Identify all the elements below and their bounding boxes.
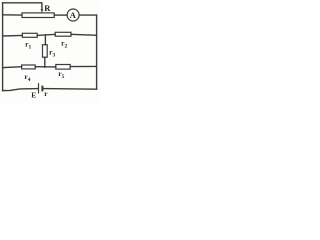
resistor r1 box xyxy=(22,33,37,37)
wire top slider lead xyxy=(3,3,42,10)
wire right rail xyxy=(96,15,98,89)
svg-text:E: E xyxy=(31,90,36,99)
battery long plate xyxy=(38,83,40,93)
wire left rail xyxy=(2,3,4,91)
wire row3 left xyxy=(3,66,22,69)
svg-text:A: A xyxy=(70,10,77,20)
wire r3 lower xyxy=(44,57,46,67)
rheostat arrow head xyxy=(41,9,44,13)
wire row2 left xyxy=(3,35,23,38)
wire row1 left xyxy=(3,14,22,16)
wire battery to right rail xyxy=(43,88,96,91)
svg-text:R: R xyxy=(44,3,51,13)
resistor r3 box xyxy=(43,45,48,58)
resistor r4 box xyxy=(22,65,36,69)
background xyxy=(0,0,101,104)
ammeter A circle xyxy=(67,9,79,21)
wire row3 middle xyxy=(35,66,56,68)
wire row2 right xyxy=(71,34,97,35)
resistor R box xyxy=(22,13,54,18)
resistor r5 box xyxy=(56,65,70,70)
battery short plate xyxy=(41,86,43,92)
wire row2 middle xyxy=(37,34,55,35)
resistor r2 box xyxy=(55,32,71,36)
wire row3 right xyxy=(70,65,96,67)
wire bottom left to battery xyxy=(3,89,38,91)
wire ammeter to right rail xyxy=(79,14,96,16)
wire R to ammeter xyxy=(54,14,67,16)
wire r3 upper xyxy=(44,35,46,45)
